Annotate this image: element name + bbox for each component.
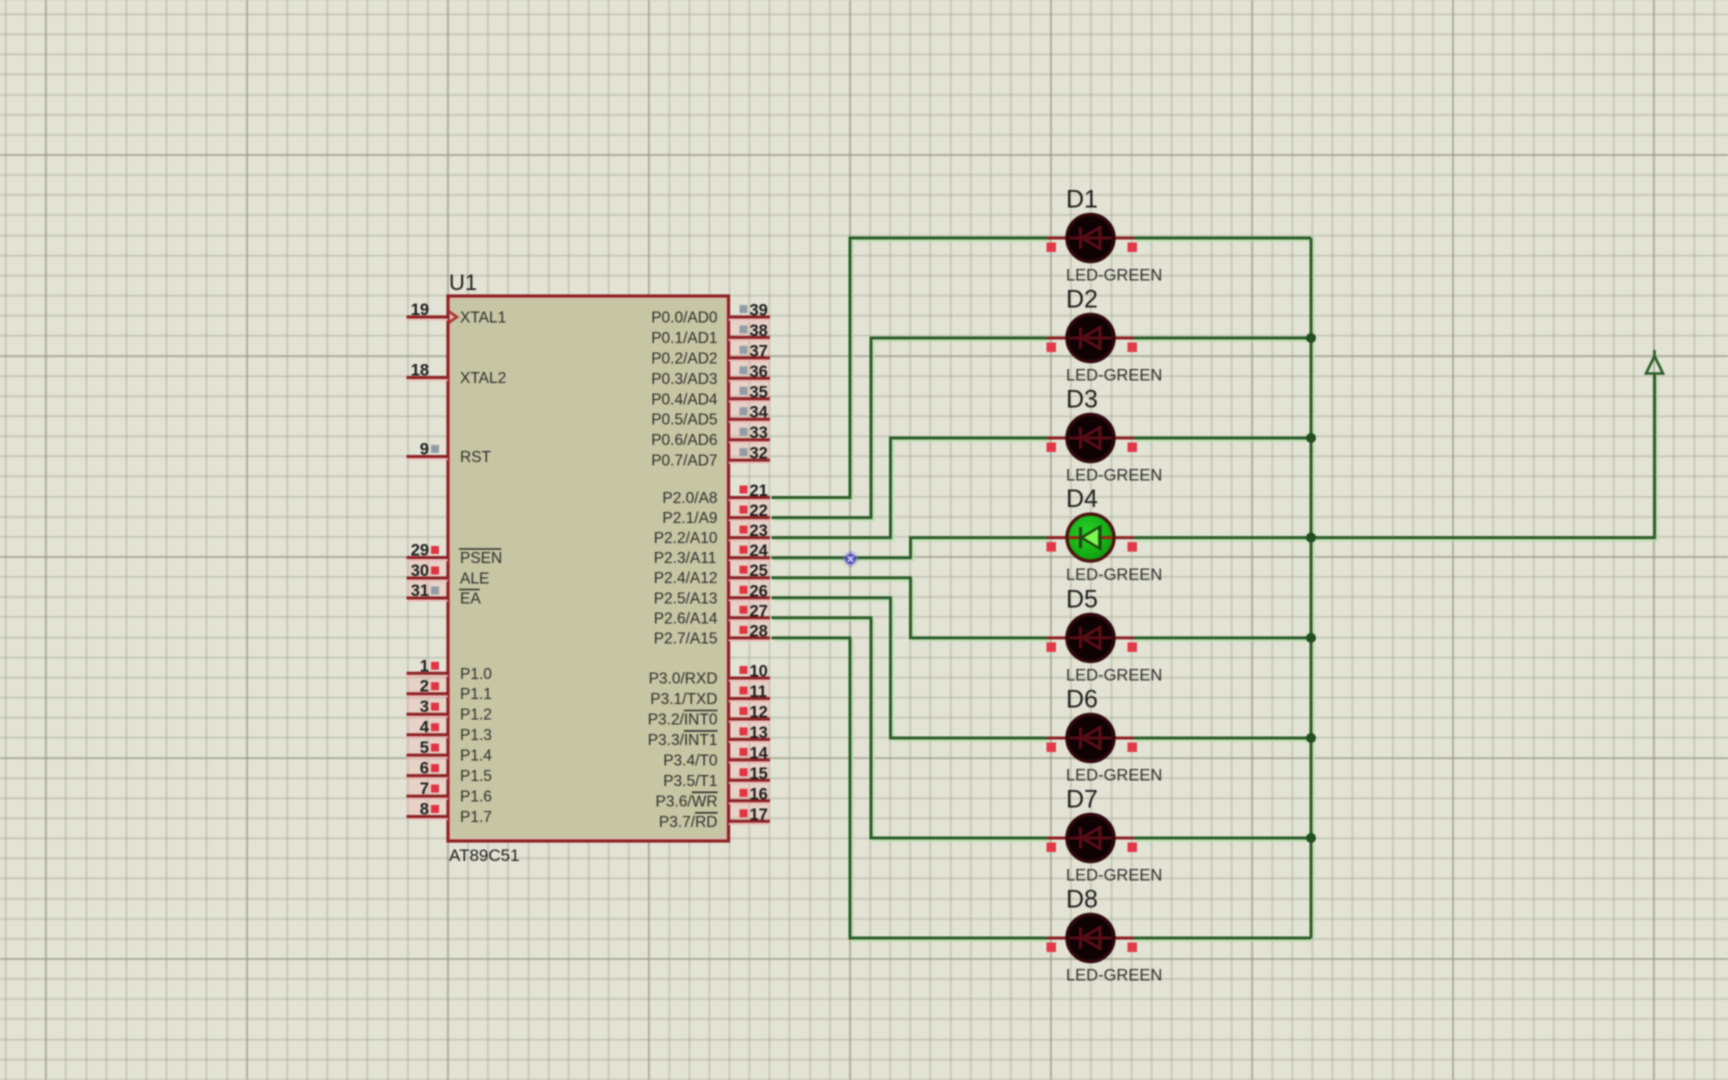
pin 18 (XTAL2) left stub	[407, 362, 507, 388]
svg-text:22: 22	[750, 502, 768, 520]
svg-text:D3: D3	[1066, 386, 1098, 414]
wire D3 cathode to bus	[1134, 438, 1311, 441]
pin 12 (P3.2/INT0) right stub	[648, 704, 770, 729]
svg-text:3: 3	[420, 698, 429, 716]
svg-text:16: 16	[750, 785, 768, 803]
pin 32 (P0.7/AD7) right stub	[651, 445, 770, 470]
svg-text:LED-GREEN: LED-GREEN	[1066, 666, 1162, 684]
svg-text:P2.6/A14: P2.6/A14	[654, 610, 718, 627]
svg-text:24: 24	[750, 542, 769, 560]
pin 11 (P3.1/TXD) right stub	[650, 683, 770, 708]
svg-text:2: 2	[420, 678, 429, 696]
svg-text:32: 32	[750, 445, 768, 463]
wire D4 cathode to bus	[1134, 538, 1311, 541]
svg-text:LED-GREEN: LED-GREEN	[1066, 566, 1162, 584]
pin 39 (P0.0/AD0) right stub	[651, 302, 770, 327]
svg-text:11: 11	[750, 683, 767, 701]
pin 17 (P3.7/RD) right stub	[659, 806, 770, 831]
svg-text:18: 18	[411, 362, 429, 380]
svg-text:D6: D6	[1066, 686, 1098, 714]
svg-text:4: 4	[420, 719, 430, 737]
pin 4 (P1.3) left stub	[407, 719, 492, 745]
svg-text:6: 6	[420, 760, 429, 778]
svg-text:21: 21	[750, 482, 768, 500]
pin 35 (P0.4/AD4) right stub	[651, 383, 770, 408]
svg-text:P0.3/AD3: P0.3/AD3	[651, 371, 717, 388]
junction node on bus y=438	[1306, 433, 1316, 443]
svg-text:D8: D8	[1066, 886, 1098, 914]
svg-text:10: 10	[750, 663, 768, 681]
svg-text:12: 12	[750, 704, 768, 722]
pin 34 (P0.5/AD5) right stub	[651, 404, 770, 429]
svg-text:LED-GREEN: LED-GREEN	[1066, 967, 1162, 985]
svg-text:D2: D2	[1066, 286, 1098, 314]
pin 25 (P2.4/A12) right stub	[654, 562, 770, 587]
wire net P2.3/A11->D4	[772, 538, 1050, 561]
junction node power tap	[1306, 533, 1316, 543]
LED D8 (LED-GREEN)	[1047, 915, 1138, 962]
svg-text:P0.7/AD7: P0.7/AD7	[651, 453, 717, 470]
svg-text:P1.4: P1.4	[460, 748, 492, 765]
svg-text:P3.4/T0: P3.4/T0	[663, 752, 718, 769]
pin 31 (EA) left stub	[407, 582, 482, 608]
svg-text:P3.5/T1: P3.5/T1	[663, 773, 717, 790]
svg-text:31: 31	[411, 582, 429, 600]
svg-text:36: 36	[750, 363, 768, 381]
wire D5 cathode to bus	[1134, 638, 1311, 641]
pin 16 (P3.6/WR) right stub	[656, 785, 771, 810]
pin 2 (P1.1) left stub	[407, 678, 492, 704]
svg-text:ALE: ALE	[460, 571, 489, 588]
svg-text:P2.0/A8: P2.0/A8	[662, 490, 717, 507]
pin 36 (P0.3/AD3) right stub	[651, 363, 770, 388]
svg-text:26: 26	[750, 582, 768, 600]
LED D2 (LED-GREEN)	[1047, 315, 1138, 362]
svg-text:27: 27	[750, 602, 768, 620]
svg-text:7: 7	[420, 780, 429, 798]
svg-text:D1: D1	[1066, 186, 1098, 214]
wire D6 cathode to bus	[1134, 738, 1311, 741]
wire net P2.0/A8->D1	[772, 238, 1050, 500]
svg-text:29: 29	[411, 542, 429, 560]
svg-text:P0.4/AD4: P0.4/AD4	[651, 391, 718, 408]
svg-text:LED-GREEN: LED-GREEN	[1066, 867, 1162, 885]
wire net P2.2/A10->D3	[772, 438, 1050, 540]
svg-text:U1: U1	[449, 270, 477, 295]
svg-text:P0.5/AD5: P0.5/AD5	[651, 412, 717, 429]
svg-text:28: 28	[750, 622, 768, 640]
svg-text:P1.1: P1.1	[460, 686, 492, 703]
mouse cursor marker	[843, 551, 859, 567]
svg-text:P3.6/WR: P3.6/WR	[656, 793, 718, 810]
svg-text:15: 15	[750, 765, 768, 783]
svg-text:XTAL2: XTAL2	[460, 370, 506, 387]
pin 28 (P2.7/A15) right stub	[654, 622, 770, 647]
LED D1 (LED-GREEN)	[1047, 215, 1138, 262]
pin 38 (P0.1/AD1) right stub	[651, 322, 770, 347]
wire net P2.5/A13->D6	[772, 598, 1050, 741]
svg-text:EA: EA	[460, 591, 481, 608]
svg-text:P3.1/TXD: P3.1/TXD	[650, 691, 717, 708]
svg-text:P0.6/AD6: P0.6/AD6	[651, 432, 717, 449]
svg-text:P3.3/INT1: P3.3/INT1	[648, 732, 718, 749]
svg-text:D7: D7	[1066, 786, 1098, 814]
svg-text:1: 1	[420, 657, 429, 675]
svg-text:P1.3: P1.3	[460, 727, 492, 744]
LED D7 (LED-GREEN)	[1047, 815, 1138, 862]
svg-text:P2.1/A9: P2.1/A9	[662, 510, 717, 527]
svg-text:13: 13	[750, 724, 768, 742]
pin 8 (P1.7) left stub	[407, 801, 492, 827]
svg-text:P1.5: P1.5	[460, 768, 492, 785]
pin 5 (P1.4) left stub	[407, 739, 493, 765]
power symbol (VCC arrow)	[1646, 350, 1663, 374]
svg-text:P2.4/A12: P2.4/A12	[654, 570, 718, 587]
pin 33 (P0.6/AD6) right stub	[651, 424, 770, 449]
svg-text:P0.1/AD1: P0.1/AD1	[651, 330, 717, 347]
pin 21 (P2.0/A8) right stub	[662, 482, 770, 507]
wire net P2.1/A9->D2	[772, 338, 1050, 520]
junction node on bus y=637.9	[1306, 633, 1316, 643]
svg-text:P1.7: P1.7	[460, 809, 492, 826]
clock input marker XTAL1	[449, 312, 457, 323]
LED D4 (LED-GREEN) lit	[1047, 514, 1138, 561]
svg-text:P3.2/INT0: P3.2/INT0	[648, 712, 718, 729]
svg-text:35: 35	[750, 383, 768, 401]
pin 13 (P3.3/INT1) right stub	[648, 724, 770, 749]
pin 23 (P2.2/A10) right stub	[654, 522, 770, 547]
svg-text:PSEN: PSEN	[460, 550, 502, 567]
svg-text:D5: D5	[1066, 585, 1098, 613]
svg-text:5: 5	[420, 739, 429, 757]
svg-text:8: 8	[420, 801, 429, 819]
LED D3 (LED-GREEN)	[1047, 415, 1138, 462]
svg-text:D4: D4	[1066, 485, 1098, 513]
LED D6 (LED-GREEN)	[1047, 715, 1138, 762]
wire D8 cathode to bus	[1134, 938, 1311, 941]
wire bus vertical (cathode rail)	[1311, 238, 1314, 938]
svg-text:38: 38	[750, 322, 768, 340]
svg-text:19: 19	[411, 301, 429, 319]
pin 14 (P3.4/T0) right stub	[663, 744, 770, 769]
pin 29 (PSEN) left stub	[407, 542, 503, 568]
svg-text:LED-GREEN: LED-GREEN	[1066, 367, 1162, 385]
svg-text:LED-GREEN: LED-GREEN	[1066, 767, 1162, 785]
pin 37 (P0.2/AD2) right stub	[651, 342, 770, 367]
svg-text:25: 25	[750, 562, 768, 580]
svg-text:34: 34	[750, 404, 769, 422]
svg-text:P1.2: P1.2	[460, 707, 492, 724]
wire D2 cathode to bus	[1134, 338, 1311, 341]
svg-text:P1.6: P1.6	[460, 789, 492, 806]
svg-text:17: 17	[750, 806, 768, 824]
junction node on bus y=738	[1306, 733, 1316, 743]
pin 15 (P3.5/T1) right stub	[663, 765, 770, 790]
svg-text:14: 14	[750, 744, 769, 762]
svg-text:37: 37	[750, 342, 768, 360]
svg-text:P1.0: P1.0	[460, 666, 492, 683]
svg-text:23: 23	[750, 522, 768, 540]
pin 19 (XTAL1) left stub	[407, 301, 507, 327]
svg-text:P3.0/RXD: P3.0/RXD	[649, 671, 718, 688]
wire net P2.6/A14->D7	[772, 618, 1050, 841]
pin 30 (ALE) left stub	[407, 562, 490, 588]
wire D7 cathode to bus	[1134, 838, 1311, 841]
svg-text:P0.0/AD0: P0.0/AD0	[651, 310, 718, 327]
pin 26 (P2.5/A13) right stub	[654, 582, 770, 607]
svg-text:33: 33	[750, 424, 768, 442]
svg-text:9: 9	[420, 441, 429, 459]
junction node on bus y=338	[1306, 333, 1316, 343]
pin 6 (P1.5) left stub	[407, 760, 492, 786]
pin 1 (P1.0) left stub	[407, 657, 493, 683]
svg-text:P2.7/A15: P2.7/A15	[654, 630, 718, 647]
wire net P2.7/A15->D8	[772, 638, 1050, 941]
wire net P2.4/A12->D5	[772, 578, 1050, 641]
wire bus to power rail	[1311, 374, 1657, 540]
svg-text:LED-GREEN: LED-GREEN	[1066, 467, 1162, 485]
pin 27 (P2.6/A14) right stub	[654, 602, 770, 627]
svg-text:P2.3/A11: P2.3/A11	[654, 550, 717, 567]
pin 22 (P2.1/A9) right stub	[662, 502, 770, 527]
LED D5 (LED-GREEN)	[1047, 614, 1138, 661]
svg-text:30: 30	[411, 562, 429, 580]
wire D1 cathode to bus	[1134, 238, 1311, 241]
pin 10 (P3.0/RXD) right stub	[649, 663, 770, 688]
svg-text:P0.2/AD2: P0.2/AD2	[651, 350, 717, 367]
svg-text:P2.2/A10: P2.2/A10	[654, 530, 718, 547]
IC U1 AT89C51 body	[448, 296, 729, 841]
pin 9 (RST) left stub	[407, 441, 492, 467]
svg-text:RST: RST	[460, 449, 492, 466]
svg-text:39: 39	[750, 302, 768, 320]
pin 24 (P2.3/A11) right stub	[654, 542, 770, 567]
svg-text:LED-GREEN: LED-GREEN	[1066, 267, 1162, 285]
svg-text:P3.7/RD: P3.7/RD	[659, 814, 718, 831]
junction node on bus y=838	[1306, 833, 1316, 843]
svg-text:AT89C51: AT89C51	[449, 846, 520, 865]
svg-text:P2.5/A13: P2.5/A13	[654, 590, 718, 607]
pin 3 (P1.2) left stub	[407, 698, 492, 724]
svg-text:XTAL1: XTAL1	[460, 310, 506, 327]
junction node on bus y=537.6	[1306, 533, 1316, 543]
pin 7 (P1.6) left stub	[407, 780, 492, 806]
